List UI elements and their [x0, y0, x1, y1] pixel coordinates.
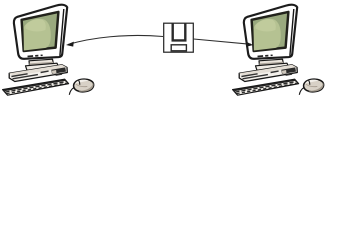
hub box [164, 23, 194, 52]
wire left [68, 35, 163, 44]
arrowhead right [246, 42, 254, 47]
hub label rect [171, 45, 186, 51]
hub shutter U [173, 23, 186, 40]
arrowhead left [66, 42, 74, 47]
computer PC1 [3, 5, 94, 95]
computer PC2 [233, 5, 324, 95]
wire right [194, 39, 251, 44]
